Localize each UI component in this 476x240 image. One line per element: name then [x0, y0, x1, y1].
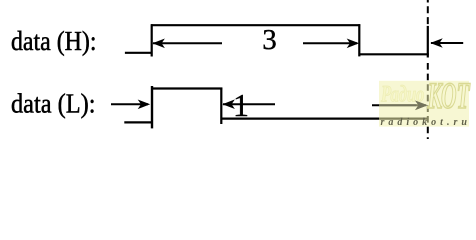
arrow right of "3" pointing right	[303, 42, 357, 44]
wire top low-right segment	[359, 53, 429, 55]
dashed reference line upper part	[427, 0, 429, 25]
arrow right of bottom falling edge pointing left	[223, 103, 275, 105]
svg-text:data (H):: data (H):	[11, 26, 97, 56]
dashed reference line lower part	[427, 63, 429, 139]
svg-text:1: 1	[233, 87, 249, 123]
wire bottom low-right segment	[221, 117, 427, 119]
wire bottom low-left segment	[124, 121, 152, 123]
svg-text:data (L):: data (L):	[11, 89, 96, 119]
svg-text:3: 3	[262, 24, 277, 56]
wire top falling edge	[358, 24, 360, 56]
wire top low-left segment	[125, 52, 152, 54]
wire top rising edge 1	[151, 24, 153, 56]
arrow left of "3" pointing left	[153, 42, 222, 44]
watermark background	[379, 81, 469, 127]
arrow to dashed line greyed portion over watermark	[379, 104, 417, 106]
svg-text:radiokot.ru: radiokot.ru	[381, 117, 471, 128]
wire bottom rising edge	[151, 86, 153, 128]
arrow pointing right to dashed line (under watermark)	[372, 104, 426, 106]
arrow before bottom rising edge pointing right	[111, 103, 148, 105]
wire top high segment	[151, 24, 360, 26]
wire bottom high segment	[151, 87, 222, 89]
wire top rising edge 2	[427, 26, 429, 58]
svg-text:КОТ: КОТ	[427, 75, 471, 117]
wire bottom falling edge	[220, 88, 222, 125]
arrow at top right pointing left to dashed line	[431, 42, 463, 44]
